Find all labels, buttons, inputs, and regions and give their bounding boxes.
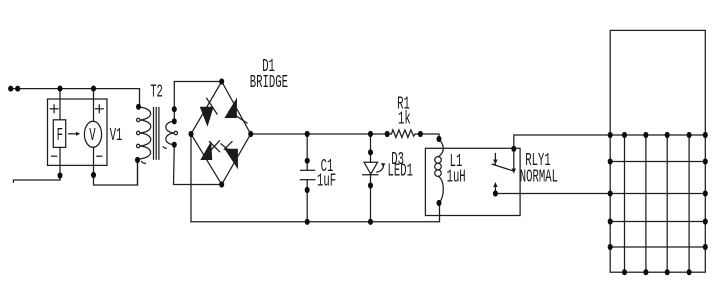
svg-text:T2: T2 [150,80,163,102]
svg-text:V1: V1 [110,124,123,146]
svg-text:V: V [89,124,96,146]
svg-text:BRIDGE: BRIDGE [250,71,288,93]
svg-text:F: F [57,124,63,146]
svg-text:1uH: 1uH [447,166,466,188]
svg-text:LED1: LED1 [388,160,413,182]
svg-text:1uF: 1uF [317,170,336,192]
svg-text:1k: 1k [398,108,411,130]
svg-text:NORMAL: NORMAL [520,166,558,188]
